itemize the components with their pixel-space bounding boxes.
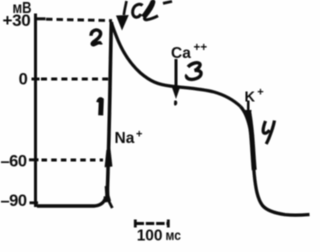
handwritten phase label 3 bbox=[187, 63, 202, 80]
tick +30 bbox=[34, 17, 46, 20]
handwritten phase label 4 bbox=[263, 121, 269, 133]
svg-text:0: 0 bbox=[19, 71, 28, 89]
tick -60 bbox=[29, 158, 39, 161]
Cl- handwritten label bbox=[133, 4, 143, 17]
svg-text:–90: –90 bbox=[1, 192, 27, 210]
svg-text:+: + bbox=[257, 87, 263, 99]
resting potential wire (-90 line) bbox=[37, 198, 106, 206]
tick -90 bbox=[30, 201, 39, 204]
arrowhead up on upstroke bbox=[105, 149, 113, 168]
svg-text:++: ++ bbox=[194, 42, 208, 54]
Ca++ arrowhead bbox=[172, 88, 180, 99]
Cl- superscript minus bbox=[163, 1, 172, 3]
phase 3 thick overlay bbox=[249, 111, 255, 170]
svg-text:Na: Na bbox=[115, 130, 135, 147]
time scale bar bbox=[134, 220, 137, 228]
Ca++ arrow shaft bbox=[175, 59, 178, 88]
phase 0 upstroke (Na influx) bbox=[107, 22, 111, 201]
Cl- arrowhead bbox=[116, 15, 129, 31]
handwritten phase label 1 bbox=[99, 100, 102, 116]
tick 0 bbox=[32, 78, 40, 81]
svg-text:Ca: Ca bbox=[171, 45, 191, 62]
dashed line +30 bbox=[46, 19, 112, 20]
arrowhead down on phase 3 (K efflux) bbox=[245, 110, 252, 123]
phase 1-2 plateau curve bbox=[111, 22, 240, 107]
phase 3 repolarization bbox=[241, 107, 310, 216]
svg-text:мс: мс bbox=[166, 227, 181, 243]
dashed line 0 bbox=[41, 78, 110, 81]
svg-text:+30: +30 bbox=[3, 11, 31, 30]
handwritten phase label 2 bbox=[91, 30, 102, 45]
small foot tail at upstroke base bbox=[108, 200, 112, 209]
svg-text:K: K bbox=[245, 90, 256, 106]
Cl- arrow shaft bbox=[124, 1, 127, 15]
svg-text:100: 100 bbox=[137, 227, 163, 244]
junction ink blob bbox=[104, 196, 112, 203]
Ca++ arrow tip dot bbox=[174, 100, 177, 105]
svg-text:–60: –60 bbox=[1, 153, 27, 171]
dashed line -60 bbox=[42, 159, 104, 162]
svg-text:+: + bbox=[136, 129, 142, 141]
y-axis bbox=[34, 14, 37, 208]
